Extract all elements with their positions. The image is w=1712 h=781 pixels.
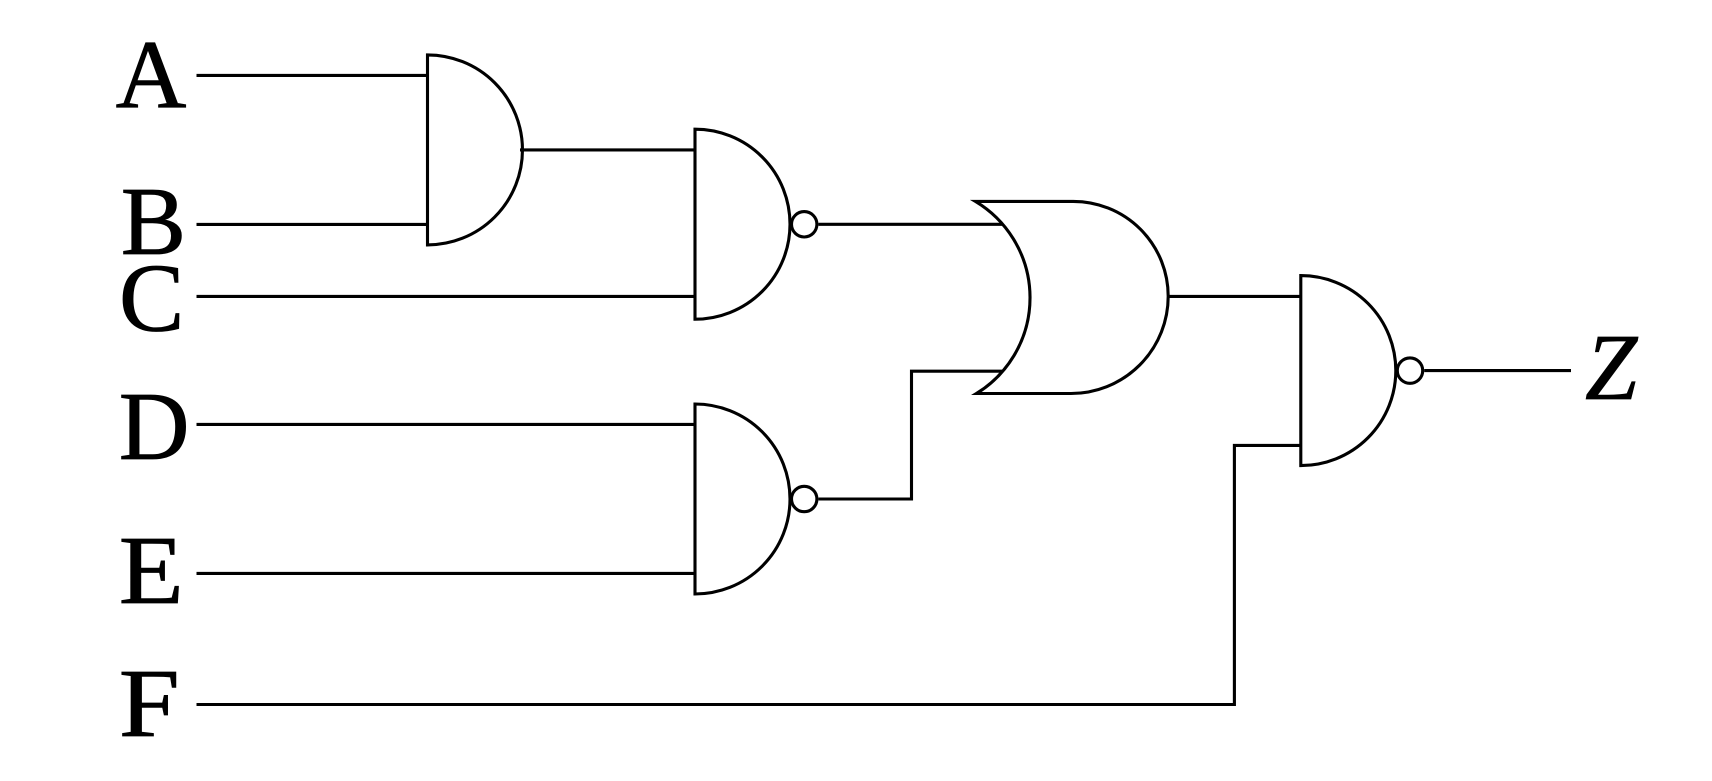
wire A input (197, 74, 428, 77)
svg-text:A: A (116, 22, 187, 130)
nand gate U3 bubble (792, 486, 817, 511)
nand gate U2 bubble (792, 212, 817, 237)
wire F input to U5 (197, 445, 1301, 704)
svg-text:E: E (119, 517, 184, 625)
wire U5 output (1424, 369, 1571, 372)
nand gate U2 body (695, 129, 790, 319)
nand gate U5 body (1301, 276, 1396, 466)
wire U2 output (818, 223, 1003, 226)
nand gate U3 body (695, 404, 790, 594)
nand gate U5 bubble (1397, 358, 1422, 383)
wire U3 output to U4 (818, 371, 1003, 499)
svg-text:C: C (119, 245, 184, 353)
and gate U1 (428, 55, 523, 245)
svg-text:F: F (119, 650, 180, 758)
wire U1 output (520, 148, 695, 151)
wire E input (197, 572, 696, 575)
wire B input (197, 223, 428, 226)
wire C input (197, 295, 696, 298)
wire D input (197, 423, 696, 426)
svg-text:D: D (119, 373, 190, 481)
wire U4 output (1169, 295, 1301, 298)
or gate U4 (976, 201, 1169, 393)
svg-text:Z: Z (1585, 316, 1639, 420)
